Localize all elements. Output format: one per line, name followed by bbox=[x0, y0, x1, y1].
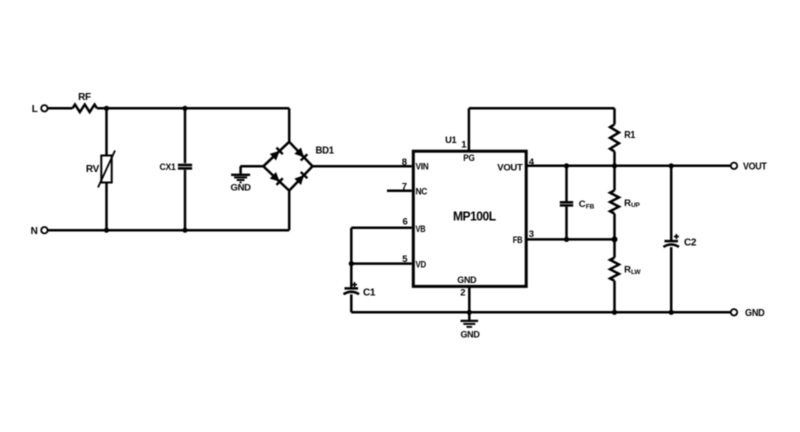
svg-text:MP100L: MP100L bbox=[453, 210, 497, 224]
svg-text:8: 8 bbox=[402, 157, 407, 168]
svg-text:VOUT: VOUT bbox=[743, 162, 767, 173]
svg-text:VB: VB bbox=[416, 224, 426, 235]
svg-text:GND: GND bbox=[457, 275, 476, 286]
svg-text:RV: RV bbox=[86, 164, 100, 175]
svg-text:FB: FB bbox=[586, 203, 595, 210]
svg-text:R1: R1 bbox=[624, 130, 635, 141]
svg-text:PG: PG bbox=[463, 153, 474, 164]
svg-text:N: N bbox=[31, 226, 38, 237]
svg-text:VIN: VIN bbox=[416, 162, 429, 173]
svg-text:C2: C2 bbox=[684, 237, 697, 248]
svg-text:RF: RF bbox=[78, 92, 91, 103]
svg-text:U1: U1 bbox=[445, 135, 457, 146]
svg-text:7: 7 bbox=[402, 181, 407, 192]
svg-text:C: C bbox=[579, 199, 586, 210]
svg-text:UP: UP bbox=[631, 202, 640, 209]
svg-text:BD1: BD1 bbox=[316, 146, 335, 157]
svg-text:L: L bbox=[32, 104, 38, 115]
svg-text:C1: C1 bbox=[363, 287, 376, 298]
svg-text:GND: GND bbox=[460, 330, 480, 340]
svg-text:2: 2 bbox=[460, 288, 465, 299]
svg-text:CX1: CX1 bbox=[160, 162, 177, 173]
svg-text:GND: GND bbox=[745, 308, 765, 319]
svg-text:LW: LW bbox=[631, 269, 641, 276]
svg-text:GND: GND bbox=[230, 183, 251, 194]
svg-text:VD: VD bbox=[416, 260, 427, 271]
svg-text:VOUT: VOUT bbox=[497, 162, 523, 173]
svg-text:NC: NC bbox=[416, 187, 428, 198]
svg-text:6: 6 bbox=[403, 217, 408, 228]
svg-text:FB: FB bbox=[513, 235, 523, 246]
